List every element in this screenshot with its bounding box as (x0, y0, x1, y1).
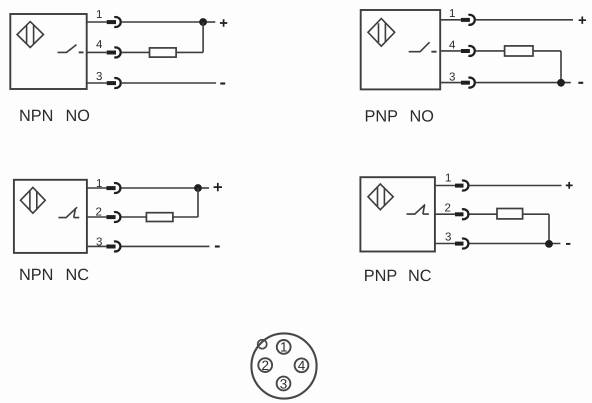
plug contact pin1 U2 (461, 15, 475, 25)
load resistor RL1 (150, 48, 177, 57)
junction node A (199, 18, 207, 26)
wire node C to + terminal (202, 187, 209, 189)
svg-text:1: 1 (280, 340, 288, 355)
wire pin3 to - terminal (122, 82, 216, 84)
+ terminal (V+) U2 (579, 17, 586, 24)
junction node B (557, 79, 565, 87)
wire U2 pin1 to + terminal (476, 19, 573, 21)
wire U3 pin2 to plug (87, 216, 107, 218)
pin 1 label (U1) (96, 9, 102, 21)
wire load to node A (176, 51, 203, 53)
sensor box U4 (PNP NC) (360, 177, 435, 251)
wire U2 pin1 to plug (440, 19, 461, 21)
wire U3 pin1 to plug (87, 187, 107, 189)
switch S2 (NO contact) (409, 42, 437, 52)
plug contact pin3 U4 (455, 238, 468, 248)
svg-text:3: 3 (96, 71, 102, 83)
plug contact pin3 U3 (106, 241, 120, 251)
svg-text:4: 4 (449, 39, 456, 51)
sensor symbol (diamond) U2 (368, 19, 395, 47)
svg-text:1: 1 (449, 8, 455, 20)
label PNP NO (365, 108, 434, 126)
svg-text:1: 1 (96, 9, 102, 21)
connector J1 pin 3 (277, 376, 291, 391)
sensor symbol (diamond) U1 (17, 22, 43, 48)
svg-text:NC: NC (66, 266, 90, 284)
- terminal (V-) (220, 82, 225, 84)
svg-text:PNP: PNP (364, 267, 397, 285)
svg-text:4: 4 (96, 39, 103, 51)
wire pin2 to load RL4 (470, 213, 498, 215)
plug contact pin2 U3 (106, 212, 120, 222)
pin 2 label (U4) (445, 203, 451, 215)
wire U3 pin3 to - terminal (122, 245, 210, 247)
pin 1 label (U2) (449, 8, 455, 20)
wire U2 pin3 to - terminal (476, 82, 571, 84)
wire U3 pin3 to plug (87, 245, 107, 247)
pin 1 label (U4) (445, 172, 451, 184)
plug contact pin3 U2 (461, 78, 475, 88)
wire node A to + terminal (207, 21, 216, 23)
wire U4 pin3 to - terminal (470, 243, 561, 245)
wire load RL2 to node B (533, 51, 561, 83)
+ terminal (V+) (220, 19, 227, 26)
sensor symbol (diamond) U3 (21, 187, 46, 213)
sensor box U3 (NPN NC) (14, 180, 87, 253)
label PNP NC (364, 267, 432, 285)
svg-text:2: 2 (261, 358, 269, 373)
svg-text:NC: NC (408, 267, 432, 285)
- terminal (V-) U2 (578, 82, 583, 84)
connector J1 pin 1 (277, 340, 291, 355)
connector J1 keying notch (258, 340, 267, 349)
plug contact pin2 U4 (455, 209, 468, 219)
wire U1 pin1 to plug (87, 21, 107, 23)
switch S3 (NC contact) (58, 207, 79, 217)
+ terminal (V+) U4 (566, 182, 573, 189)
connector J1 pin 2 (258, 358, 272, 373)
pin 3 label (U4) (445, 232, 451, 244)
load resistor RL3 (146, 213, 173, 222)
wire pin1 to node C (122, 187, 195, 189)
svg-text:3: 3 (280, 376, 288, 391)
- terminal (V-) U3 (215, 245, 220, 247)
svg-text:2: 2 (445, 203, 451, 215)
svg-text:4: 4 (298, 358, 306, 373)
pin 3 label (U3) (96, 236, 102, 248)
wire U4 pin1 to + terminal (470, 185, 562, 187)
load resistor RL2 (505, 46, 533, 56)
sensor box U2 (PNP NO) (361, 10, 441, 89)
junction node C (194, 184, 202, 192)
wire U4 pin3 to plug (435, 243, 455, 245)
wire U2 pin4 to plug (440, 50, 461, 52)
junction node D (545, 240, 553, 248)
plug contact pin4 U2 (461, 46, 475, 56)
sensor box U1 (NPN NO) (10, 14, 86, 89)
wire pin2 to load RL3 (122, 216, 147, 218)
plug contact pin1 U3 (106, 183, 120, 193)
svg-text:3: 3 (445, 232, 451, 244)
+ terminal (V+) U3 (214, 183, 222, 191)
load resistor RL4 (497, 209, 523, 219)
wire pin4 to load RL2 (476, 50, 505, 52)
pin 3 label (U1) (96, 71, 102, 83)
svg-text:NO: NO (410, 108, 434, 126)
svg-text:NPN: NPN (19, 266, 53, 284)
pin 4 label (U2) (449, 39, 456, 51)
svg-text:NO: NO (66, 107, 90, 125)
wire U1 pin4 to plug (87, 51, 107, 53)
wire U2 pin3 to plug (440, 82, 461, 84)
svg-text:NPN: NPN (19, 107, 53, 125)
pin 4 label (U1) (96, 39, 103, 51)
switch S1 (NO contact) (58, 45, 84, 53)
wire U4 pin2 to plug (435, 213, 455, 215)
wire pin1 to + node (122, 21, 200, 23)
plug contact pin1 U4 (455, 181, 468, 191)
label NPN NC (19, 266, 89, 284)
svg-text:1: 1 (445, 172, 451, 184)
pin 2 label (U3) (96, 207, 102, 219)
svg-text:PNP: PNP (365, 108, 398, 126)
pin 1 label (U3) (96, 178, 102, 190)
- terminal (V-) U4 (566, 243, 570, 245)
wire load RL3 to node C (173, 188, 198, 217)
connector J1 pin 4 (295, 358, 309, 373)
switch S4 (NC contact) (407, 205, 429, 215)
wire U4 pin1 to plug (435, 185, 455, 187)
plug contact pin3 U1 (107, 78, 121, 88)
pin 3 label (U2) (449, 72, 455, 84)
plug contact pin1 U1 (107, 17, 121, 27)
sensor symbol (diamond) U4 (368, 184, 393, 210)
wire load RL4 to node D (523, 214, 549, 244)
wire node A vertical (202, 22, 204, 52)
wire pin4 to load (122, 51, 150, 53)
connector J1 outer shell (251, 333, 316, 398)
wire U1 pin3 to plug (87, 82, 107, 84)
label NPN NO (19, 107, 90, 125)
plug contact pin4 U1 (107, 47, 121, 57)
